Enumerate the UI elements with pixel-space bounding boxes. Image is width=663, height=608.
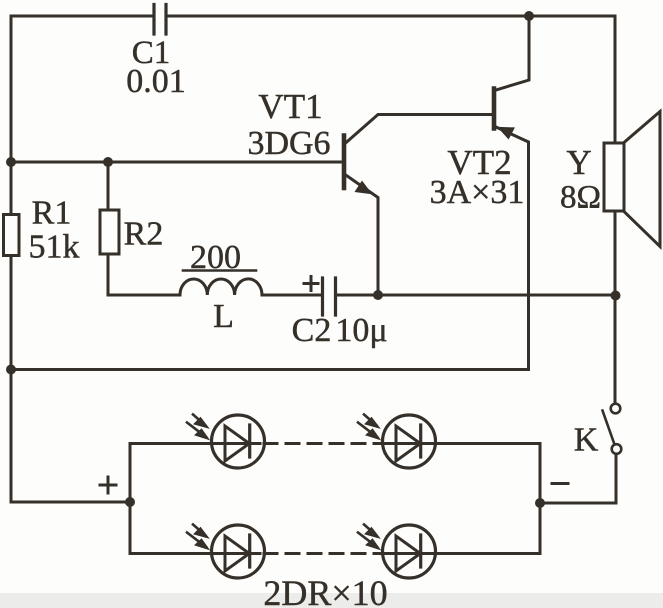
photocell D1 [187, 415, 265, 469]
wire top branch dashed [264, 442, 383, 445]
capacitor C2 plates [323, 278, 336, 315]
speaker Y horn [624, 112, 660, 247]
svg-text:R1: R1 [32, 195, 72, 232]
label battery plus [100, 477, 116, 493]
svg-text:VT1: VT1 [258, 87, 322, 126]
switch K bottom contact [612, 444, 622, 454]
wire top rail left of C1 [11, 15, 154, 18]
wire switch to minus node [540, 454, 616, 503]
node junction R2-top [103, 157, 113, 167]
speaker Y frame [604, 143, 624, 211]
svg-text:3DG6: 3DG6 [247, 125, 330, 162]
transistor VT1 collector [345, 115, 494, 144]
node junction speaker branch [611, 291, 621, 301]
photocell D4 [358, 525, 436, 579]
wire left vertical upper [10, 16, 13, 215]
inductor L [180, 279, 262, 295]
wire bottom branch right [383, 552, 540, 555]
node junction left return [6, 365, 16, 375]
resistor R1 [4, 215, 20, 256]
svg-text:10μ: 10μ [335, 312, 387, 349]
wire emitter rail y295 [336, 294, 617, 297]
transistor VT2 collector [496, 16, 529, 90]
capacitor C1 plates [154, 5, 166, 35]
wire left vertical lower [11, 256, 130, 503]
svg-text:C2: C2 [292, 312, 332, 349]
svg-text:R2: R2 [124, 216, 164, 253]
node junction VT2 collector top [524, 11, 534, 21]
node junction VT1 emitter [373, 290, 383, 300]
switch K lever [603, 411, 615, 445]
wire top branch right [383, 442, 540, 445]
wire bottom branch left [130, 552, 260, 555]
transistor VT1 emitter arrow [356, 182, 372, 194]
photocell D2 [358, 415, 436, 469]
label C2 plus sign [304, 277, 318, 291]
wire right vertical lower [614, 211, 617, 404]
wire bottom branch dashed [264, 552, 383, 555]
svg-text:0.01: 0.01 [126, 63, 186, 100]
resistor R2 [100, 210, 119, 254]
photocell D3 [187, 525, 265, 579]
svg-text:K: K [574, 422, 599, 459]
svg-text:2DR×10: 2DR×10 [263, 573, 387, 608]
wire top rail right of C1 [166, 15, 615, 18]
wire cell bank right vertical [539, 444, 542, 554]
transistor VT2 base bar [492, 89, 497, 129]
wire right vertical upper [614, 16, 617, 143]
svg-text:L: L [213, 298, 234, 335]
transistor VT1 emitter [345, 175, 378, 296]
switch K top contact [611, 404, 621, 414]
wire top branch left [130, 442, 260, 445]
transistor VT2 emitter [496, 127, 529, 370]
wire R2 bottom lead to inductor [108, 254, 180, 295]
svg-text:8Ω: 8Ω [560, 180, 601, 216]
label 200 underline [183, 269, 256, 272]
svg-text:51k: 51k [29, 229, 80, 266]
wire cell bank left vertical [129, 444, 132, 554]
transistor VT1 base bar [342, 136, 347, 189]
wire inductor to C2 [262, 294, 322, 297]
label minus [552, 482, 568, 485]
scan shade bottom [0, 593, 663, 608]
node junction plus terminal [125, 497, 135, 507]
svg-text:Y: Y [566, 143, 591, 182]
wire R2 top lead [107, 162, 110, 210]
svg-text:3A×31: 3A×31 [430, 174, 525, 211]
wire base rail y162 [11, 161, 342, 164]
wire return rail y369 [11, 368, 529, 371]
transistor VT2 emitter arrow [499, 128, 515, 139]
node junction minus terminal [535, 498, 545, 508]
node junction left-base [6, 157, 16, 167]
